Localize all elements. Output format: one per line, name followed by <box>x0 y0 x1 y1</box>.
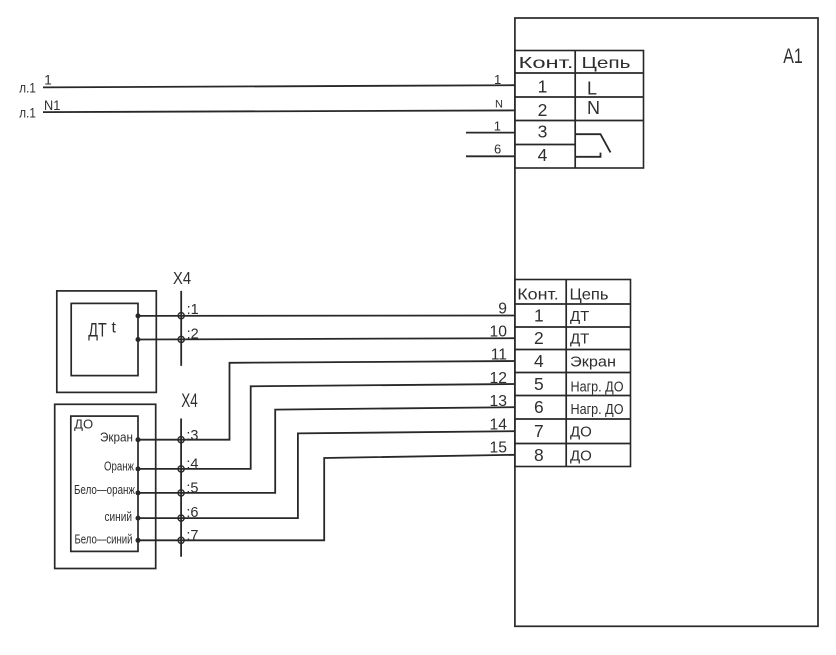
device ДО inner box <box>71 416 138 551</box>
svg-text:6: 6 <box>534 397 544 417</box>
svg-text:4: 4 <box>534 351 544 371</box>
svg-text::5: :5 <box>186 481 198 497</box>
svg-text:Конт.: Конт. <box>519 55 574 72</box>
svg-text:14: 14 <box>490 416 508 433</box>
svg-text::3: :3 <box>186 428 198 444</box>
svg-text:X4: X4 <box>181 390 198 412</box>
svg-text:t: t <box>112 319 117 336</box>
svg-text:1: 1 <box>494 72 501 87</box>
svg-text:6: 6 <box>494 142 501 157</box>
wire 9 (ДТ to pin 1) <box>138 315 515 317</box>
junction dot синий <box>136 516 141 521</box>
svg-text:N1: N1 <box>44 97 60 113</box>
junction dot Оранж <box>136 466 141 471</box>
sensor ДТ outer box <box>57 291 157 393</box>
svg-text:1: 1 <box>534 305 544 325</box>
svg-text::6: :6 <box>186 505 198 521</box>
wire 11 (Экран to pin 4) <box>138 361 515 440</box>
junction dot Бело-синий <box>136 538 141 543</box>
wire 12 (Оранж to pin 5) <box>138 384 515 469</box>
wire 13 (Бело-оранж to pin 6) <box>138 407 515 493</box>
svg-text:л.1: л.1 <box>19 105 36 121</box>
contact circle :7 <box>178 537 184 543</box>
svg-text:Бело—оранж: Бело—оранж <box>74 483 135 497</box>
connector X4 lower (pins :3-:7) <box>180 419 182 557</box>
svg-text:2: 2 <box>538 100 548 120</box>
svg-text:ДТ: ДТ <box>570 308 589 325</box>
svg-text:13: 13 <box>490 393 508 410</box>
svg-text::2: :2 <box>187 326 199 342</box>
svg-text:Экран: Экран <box>100 430 133 444</box>
svg-text:4: 4 <box>538 145 548 165</box>
svg-text:Конт.: Конт. <box>517 286 559 303</box>
svg-text:X4: X4 <box>173 268 191 288</box>
svg-text::4: :4 <box>186 457 198 473</box>
svg-text:ДО: ДО <box>570 424 592 441</box>
svg-text:1: 1 <box>44 73 52 88</box>
junction dot Экран <box>136 437 141 442</box>
svg-text:Нагр. ДО: Нагр. ДО <box>571 379 624 396</box>
device box A1 <box>515 18 818 626</box>
svg-text:7: 7 <box>534 421 544 441</box>
device ДО outer box <box>55 404 156 568</box>
contact circle :6 <box>178 515 184 521</box>
wire net 1 (phase L from panel л.1) <box>43 85 515 87</box>
svg-text:8: 8 <box>534 445 544 465</box>
svg-text:ДО: ДО <box>74 418 93 432</box>
relay contact between pins 3 and 4 <box>575 134 610 157</box>
svg-text:Нагр. ДО: Нагр. ДО <box>571 401 624 418</box>
svg-text:5: 5 <box>534 374 544 394</box>
wire stub to upper pin 4 <box>466 155 515 157</box>
svg-text:10: 10 <box>490 324 508 341</box>
wire net N1 (neutral from panel л.1) <box>43 110 515 112</box>
wire 15 (Бело-синий to pin 8) <box>138 455 515 541</box>
svg-text:Цепь: Цепь <box>582 55 631 72</box>
svg-text:л.1: л.1 <box>19 80 36 96</box>
contact circle :5 <box>178 490 184 496</box>
svg-text:2: 2 <box>534 328 544 348</box>
connector X4 upper (pins :1 :2) <box>180 291 182 366</box>
svg-text::1: :1 <box>187 302 199 318</box>
wire stub to upper pin 3 <box>466 132 515 134</box>
svg-text:1: 1 <box>538 77 548 97</box>
svg-text:Бело—синий: Бело—синий <box>75 532 133 546</box>
svg-text:ДО: ДО <box>570 447 592 464</box>
svg-text:Оранж: Оранж <box>104 459 134 473</box>
svg-text:L: L <box>587 79 597 99</box>
svg-text:синий: синий <box>105 510 133 524</box>
sensor ДТ inner box <box>71 303 138 375</box>
svg-text:15: 15 <box>490 440 508 457</box>
svg-text:12: 12 <box>490 370 507 387</box>
svg-text:9: 9 <box>498 300 507 317</box>
junction dot Бело-оранж <box>136 490 141 495</box>
svg-text:3: 3 <box>538 121 548 141</box>
svg-text:N: N <box>587 98 600 118</box>
svg-text::7: :7 <box>186 528 198 544</box>
contact circle :1 <box>178 313 184 319</box>
svg-text:Экран: Экран <box>570 353 616 370</box>
lower connector table frame <box>515 280 631 467</box>
svg-text:N: N <box>495 98 503 110</box>
contact circle :4 <box>178 466 184 472</box>
svg-text:11: 11 <box>491 347 507 364</box>
contact circle :2 <box>178 336 184 342</box>
svg-text:ДТ: ДТ <box>88 321 107 342</box>
junction dot ДТ pin a <box>136 313 141 318</box>
wire 14 (синий to pin 7) <box>138 431 515 518</box>
upper connector table frame <box>515 51 644 169</box>
contact circle :3 <box>178 437 184 443</box>
svg-text:ДТ: ДТ <box>570 331 589 348</box>
junction dot ДТ pin b <box>136 337 141 342</box>
wire 10 (ДТ to pin 2) <box>138 338 515 339</box>
svg-text:1: 1 <box>494 118 501 133</box>
svg-text:A1: A1 <box>783 45 803 68</box>
svg-text:Цепь: Цепь <box>570 286 609 303</box>
